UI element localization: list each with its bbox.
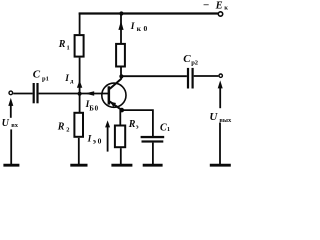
svg-text:I: I	[130, 22, 135, 32]
wire base node to R2	[79, 94, 81, 112]
svg-text:д: д	[70, 79, 73, 85]
svg-text:э: э	[136, 124, 139, 131]
wire input terminal to Cp1	[13, 93, 32, 95]
svg-text:вых: вых	[219, 117, 232, 124]
capacitor Cp2	[187, 68, 194, 89]
wire output arrow shaft	[219, 87, 221, 109]
svg-text:R: R	[57, 122, 65, 133]
label Ie0	[87, 135, 103, 146]
svg-text:1: 1	[167, 126, 170, 133]
current arrow Ik0 (collector current, up)	[118, 21, 123, 30]
svg-text:R: R	[58, 39, 66, 50]
wire R1 top (rail to R1)	[79, 13, 81, 35]
capacitor Cp1	[33, 83, 39, 103]
wire base node to transistor base	[80, 93, 109, 95]
svg-text:–: –	[203, 0, 210, 11]
svg-text:I: I	[64, 74, 69, 84]
label Cp2	[183, 53, 198, 67]
transistor collector lead	[110, 79, 122, 89]
terminal output	[219, 74, 222, 77]
wire Rk bottom to collector node	[120, 68, 122, 77]
label -Ek	[203, 0, 229, 12]
wire rail to Rk top	[120, 13, 122, 44]
terminal -Ek	[218, 12, 222, 16]
label Cp1	[33, 69, 49, 83]
terminal input	[9, 91, 13, 95]
node base divider junction	[78, 92, 82, 96]
wire R2 bottom to ground	[78, 138, 80, 165]
current arrow Ie0 (emitter current, up, beside Re)	[105, 120, 110, 127]
svg-text:E: E	[215, 0, 223, 11]
wire Ie0 arrow shaft	[107, 126, 109, 152]
transistor VT1 circle	[102, 83, 126, 107]
label R2	[57, 122, 70, 134]
svg-text:р2: р2	[191, 60, 198, 67]
transistor base bar	[108, 86, 111, 104]
wire C1 bottom to ground	[152, 143, 154, 165]
wire output lower lead	[219, 123, 221, 165]
wire collector node to Cp2	[121, 75, 186, 77]
wire input arrow shaft	[10, 104, 12, 118]
svg-text:к: к	[224, 5, 228, 12]
wire emitter node to C1 branch	[122, 110, 153, 136]
capacitor C1	[141, 136, 165, 143]
svg-text:U: U	[2, 118, 10, 129]
svg-text:U: U	[209, 111, 218, 123]
node collector junction	[119, 74, 123, 78]
ground bar input	[3, 164, 19, 167]
wire emitter node to Re	[119, 110, 121, 125]
ground bar output	[210, 164, 231, 167]
svg-text:р1: р1	[42, 75, 49, 82]
node junction dot on rail above Rk	[119, 11, 123, 15]
wire R1 bottom to base node	[79, 58, 81, 94]
svg-text:вх: вх	[11, 122, 19, 129]
transistor emitter lead	[110, 102, 122, 111]
svg-text:Б0: Б0	[89, 104, 99, 112]
resistor R1	[75, 35, 84, 57]
node emitter junction	[120, 108, 125, 113]
wire collector to collector node	[120, 77, 122, 80]
label C1	[160, 123, 170, 134]
label Uvyh	[209, 111, 232, 124]
current arrow Uvyh direction (up)	[218, 80, 223, 88]
transistor emitter arrow (PNP, toward base)	[110, 102, 116, 107]
svg-text:I: I	[87, 135, 92, 145]
wire Cp2 to output terminal	[194, 75, 219, 77]
svg-text:C: C	[33, 69, 41, 81]
wire top supply rail	[79, 12, 219, 14]
current arrow Uvx direction (up, below input terminal)	[8, 98, 13, 106]
current arrow IB0 (base current, left)	[85, 91, 95, 96]
label Uvx	[2, 118, 19, 129]
resistor R2	[74, 113, 83, 137]
svg-text:э0: э0	[93, 137, 103, 146]
wire Cp1 to base node	[39, 93, 80, 95]
label Id	[64, 74, 73, 85]
ground bar C1	[143, 164, 163, 167]
label R1	[58, 39, 70, 51]
label Ik0	[130, 22, 150, 33]
svg-text:R: R	[128, 119, 136, 130]
current arrow Id (divider current, up)	[77, 80, 82, 87]
ground bar Re	[111, 164, 132, 167]
wire Re bottom to ground	[120, 148, 122, 165]
wire input lower lead	[10, 129, 12, 164]
svg-text:1: 1	[67, 45, 70, 52]
ground bar R2	[70, 164, 87, 167]
resistor Re	[115, 126, 125, 148]
svg-text:к0: к0	[137, 24, 150, 33]
svg-text:C: C	[183, 53, 191, 65]
label IB0	[85, 100, 99, 113]
resistor Rk	[116, 44, 125, 67]
svg-text:2: 2	[66, 127, 69, 134]
label Re	[128, 119, 139, 131]
